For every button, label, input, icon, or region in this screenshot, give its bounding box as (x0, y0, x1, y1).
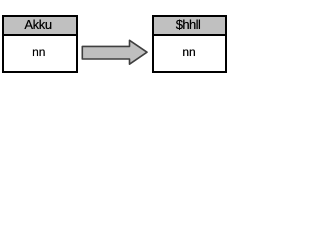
memory box $hhll (152, 15, 227, 73)
header label $hhll (154, 17, 225, 36)
register box Akku (2, 15, 78, 73)
value nn (Akku) (4, 45, 76, 59)
value nn ($hhll) (154, 45, 225, 59)
header label Akku (4, 17, 76, 36)
block arrow Akku to $hhll (0, 0, 229, 96)
